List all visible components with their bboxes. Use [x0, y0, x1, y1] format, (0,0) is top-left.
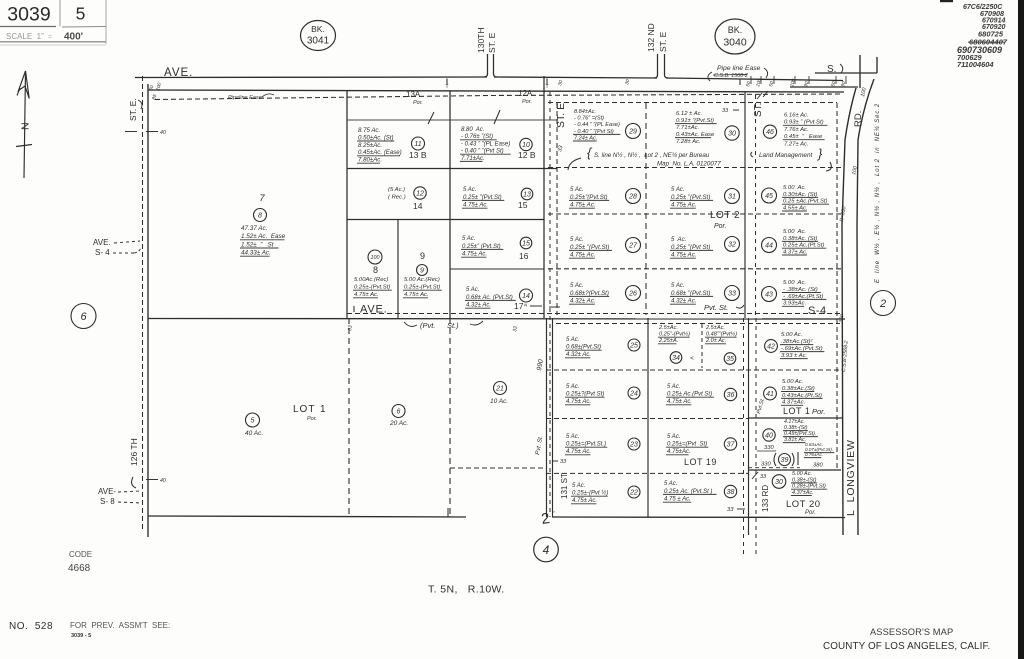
svg-text:5 Ac.: 5 Ac.	[566, 434, 579, 440]
svg-text:13: 13	[523, 192, 531, 199]
svg-text:32: 32	[728, 242, 736, 249]
svg-text:(5 Ac.): (5 Ac.)	[388, 187, 405, 193]
svg-text:130TH: 130TH	[476, 27, 486, 53]
svg-text:40 Ac.: 40 Ac.	[245, 430, 263, 437]
svg-text:4.32± Ac.: 4.32± Ac.	[671, 298, 696, 305]
svg-text:0.93± ” (Pvt St): 0.93± ” (Pvt St)	[784, 120, 824, 126]
svg-text:<: <	[690, 355, 694, 362]
north boundary line	[148, 90, 844, 92]
divider parcels 8 9	[397, 220, 399, 319]
svg-text:5: 5	[76, 4, 86, 24]
svg-text:5 Ac.: 5 Ac.	[566, 337, 579, 343]
parcel 37	[666, 434, 737, 455]
svg-text:5.00 Ac.: 5.00 Ac.	[792, 471, 812, 477]
svg-text:LOT: LOT	[293, 404, 315, 415]
svg-text:6.16± Ac.: 6.16± Ac.	[784, 113, 809, 119]
svg-text:330: 330	[764, 445, 774, 451]
svg-text:Por.: Por.	[413, 100, 423, 106]
tick 40 lower	[146, 478, 166, 484]
parcel 28	[569, 186, 641, 209]
east boundary dashed	[836, 103, 838, 470]
svg-text:0.25± ”(Pvt.St): 0.25± ”(Pvt.St)	[463, 195, 502, 201]
parcel 25	[565, 337, 640, 358]
svg-text:0.43±Ac. Ease: 0.43±Ac. Ease	[676, 132, 715, 138]
svg-text:33: 33	[727, 507, 734, 513]
svg-text:7.24± Ac.: 7.24± Ac.	[574, 135, 597, 141]
S street label	[827, 64, 843, 75]
svg-text:Por.: Por.	[307, 416, 317, 422]
svg-text:S-4: S-4	[808, 305, 827, 317]
svg-text:21: 21	[495, 386, 504, 393]
parcel 45	[762, 185, 830, 211]
svg-text:Por.: Por.	[522, 99, 532, 105]
ticks near 130th	[557, 78, 631, 86]
parcel 16	[461, 236, 532, 258]
west boundary solid	[147, 84, 149, 537]
svg-text:6: 6	[397, 409, 401, 416]
svg-text:7.71±Ac.: 7.71±Ac.	[461, 156, 485, 162]
svg-text:5 Ac.: 5 Ac.	[570, 236, 584, 243]
col divider AB lower	[647, 318, 649, 517]
lot 1 por label	[783, 406, 825, 416]
parcel 30	[675, 111, 739, 145]
svg-text:- 0.76” =(St): - 0.76” =(St)	[574, 116, 604, 122]
svg-text:5 Ac.: 5 Ac.	[570, 186, 584, 193]
parcel line x450	[449, 91, 451, 318]
svg-text:N: N	[20, 122, 32, 130]
parcel 36	[666, 384, 737, 405]
svg-text:4.75± Ac.: 4.75± Ac.	[463, 203, 488, 209]
svg-text:4.55± Ac.: 4.55± Ac.	[783, 205, 808, 211]
svg-text:400': 400'	[64, 32, 83, 43]
svg-text:5.00 Ac.: 5.00 Ac.	[783, 280, 806, 286]
svg-text:0.25±?(Pvt St): 0.25±?(Pvt St)	[566, 392, 604, 398]
right grid row1 bottom dashed	[548, 167, 843, 169]
svg-text:0.50±Ac. (St): 0.50±Ac. (St)	[358, 134, 394, 141]
svg-text:4.75± Ac.: 4.75± Ac.	[671, 252, 696, 259]
svg-text:0.25±=(Pvt St): 0.25±=(Pvt St)	[667, 442, 707, 448]
svg-text:8.84±Ac.: 8.84±Ac.	[574, 109, 596, 115]
lot 20 label	[786, 499, 821, 516]
svg-text:0.25±-(Pvt ½): 0.25±-(Pvt ½)	[572, 490, 608, 497]
land management note	[751, 146, 832, 171]
svg-text:42: 42	[767, 344, 775, 351]
133rd st east dashed upper	[755, 95, 757, 318]
parcel 15	[462, 187, 533, 209]
scale note	[6, 32, 83, 43]
row line y168 cols	[347, 168, 557, 170]
svg-text:5 Ac.: 5 Ac.	[463, 187, 476, 193]
parcel 46	[763, 113, 827, 148]
slash mark 2	[494, 110, 500, 124]
svg-text:6: 6	[80, 311, 87, 323]
line below por strip	[347, 119, 557, 121]
svg-text:330: 330	[761, 462, 771, 468]
svg-text:40: 40	[160, 130, 166, 136]
svg-text:(Pvt.: (Pvt.	[420, 321, 435, 330]
parcel 13B	[357, 127, 425, 164]
svg-text:12: 12	[416, 191, 424, 198]
svg-text:0.25± Ac.(Pt.St): 0.25± Ac.(Pt.St)	[783, 243, 824, 249]
avenue label middle	[354, 304, 387, 316]
parcel line x544 132nd st west	[543, 76, 545, 318]
svg-text:9: 9	[420, 268, 424, 275]
pvt st label middle	[404, 321, 483, 330]
svg-text:4.75± Ac.: 4.75± Ac.	[566, 399, 591, 405]
svg-text:T. 5N, R.10W.: T. 5N, R.10W.	[428, 584, 505, 596]
ave s8 label	[98, 487, 142, 506]
svg-text:NO. 528: NO. 528	[9, 621, 53, 632]
svg-text:4.75± Ac.: 4.75± Ac.	[570, 202, 595, 209]
parcel 33	[670, 282, 740, 305]
ave south dashed	[556, 323, 840, 325]
svg-text:4.75± Ac.: 4.75± Ac.	[566, 449, 591, 455]
svg-text:36: 36	[727, 392, 735, 399]
tick 17m	[549, 306, 560, 308]
svg-text:S. line N½ , N½ , Lot 2 , NE¼: S. line N½ , N½ , Lot 2 , NE¼ per Bureau	[594, 152, 710, 159]
svg-text:40: 40	[765, 433, 773, 440]
longview west edge	[842, 88, 856, 535]
130th st stub	[484, 54, 497, 77]
svg-text:0.25±” (Pvt.St): 0.25±” (Pvt.St)	[462, 244, 501, 250]
svg-text:5 Ac.: 5 Ac.	[664, 481, 677, 487]
svg-text:T: T	[545, 84, 548, 90]
svg-text:15: 15	[522, 241, 530, 248]
svg-text:0.28±-(Pvt.St): 0.28±-(Pvt.St)	[792, 484, 826, 490]
parcel 14 circle	[414, 187, 426, 199]
west street label ST E	[128, 98, 142, 121]
svg-text:ST.: ST.	[753, 103, 764, 117]
svg-text:5.00Ac.(Rec): 5.00Ac.(Rec)	[354, 277, 388, 283]
parcel 38	[663, 481, 737, 503]
svg-text:- 0.76± ”(St): - 0.76± ”(St)	[461, 134, 493, 140]
avenue J line top	[135, 77, 843, 81]
tick 33 row1 colB	[722, 108, 739, 114]
svg-text:- 0.40 ” ”(Pvt St): - 0.40 ” ”(Pvt St)	[461, 149, 504, 155]
row line y417 solid-right	[748, 417, 843, 419]
svg-text:29: 29	[628, 129, 637, 136]
svg-text:4.75± Ac.: 4.75± Ac.	[404, 292, 429, 298]
circle 6 west	[71, 304, 96, 329]
svg-text:0.91± ”(Pvt.St): 0.91± ”(Pvt.St)	[676, 118, 714, 124]
svg-text:30: 30	[728, 131, 736, 138]
svg-text:34: 34	[672, 355, 680, 362]
dim 330 upper	[757, 445, 776, 451]
avenue S north side	[815, 72, 877, 74]
slash mark 1	[428, 112, 434, 124]
svg-text:5.00 Ac.: 5.00 Ac.	[781, 332, 802, 338]
svg-text:11: 11	[414, 141, 421, 148]
right grid west dashed	[556, 103, 558, 315]
svg-text:0.38±-(St): 0.38±-(St)	[792, 477, 817, 483]
svg-text:1.52± Ac. Ease: 1.52± Ac. Ease	[241, 233, 286, 240]
pvt st label row4	[704, 303, 744, 312]
parcel 9	[403, 277, 442, 298]
pipe line ease note	[708, 65, 768, 81]
svg-text:0.25±-(Pvt.St): 0.25±-(Pvt.St)	[354, 285, 390, 291]
svg-text:0.25± ”(Pvt.St): 0.25± ”(Pvt.St)	[671, 194, 710, 201]
svg-text:2.5±Ac.: 2.5±Ac.	[658, 325, 678, 331]
parcel 30 lot20	[772, 471, 827, 496]
parcel 17 label	[514, 301, 542, 311]
svg-text:5 Ac.: 5 Ac.	[667, 384, 680, 390]
svg-text:0.25± ”(Pvt St): 0.25± ”(Pvt St)	[671, 244, 710, 251]
svg-text:0.48””(Pvt½): 0.48””(Pvt½)	[706, 331, 737, 338]
svg-text:0.30±Ac. (St): 0.30±Ac. (St)	[783, 192, 817, 198]
svg-text:25: 25	[629, 343, 638, 350]
svg-text:380: 380	[813, 463, 823, 469]
svg-text:8.80 Ac.: 8.80 Ac.	[461, 127, 484, 133]
parcel 7 circle	[254, 209, 267, 222]
svg-text:S- 4: S- 4	[95, 248, 110, 257]
svg-text:- 0.40 ” ”(Pvt St): - 0.40 ” ”(Pvt St)	[574, 129, 614, 135]
svg-text:7.71±Ac.: 7.71±Ac.	[676, 125, 699, 131]
svg-text:44.33± Ac.: 44.33± Ac.	[241, 250, 271, 257]
svg-text:4.75± Ac.: 4.75± Ac.	[462, 252, 487, 258]
parcel 27	[569, 236, 641, 259]
avenue S south side	[790, 86, 858, 88]
svg-text:7.76± Ac.: 7.76± Ac.	[784, 127, 809, 133]
svg-text:17: 17	[514, 301, 524, 311]
west boundary dashed	[142, 76, 144, 531]
svg-text:5: 5	[251, 418, 255, 425]
svg-text:5 Ac.: 5 Ac.	[572, 483, 585, 489]
parcel 31	[670, 186, 740, 209]
svg-text:5 Ac.: 5 Ac.	[566, 384, 579, 390]
row line y473 dashed	[546, 472, 748, 474]
parcel 39 small	[804, 442, 834, 458]
svg-text:37: 37	[727, 442, 736, 449]
svg-text:Pvt. St.: Pvt. St.	[704, 303, 728, 312]
svg-text:24: 24	[629, 391, 638, 398]
svg-text:CODE: CODE	[69, 550, 92, 559]
tick marks on avenue	[445, 79, 740, 91]
svg-text:4.75 ± Ac.: 4.75 ± Ac.	[664, 497, 691, 503]
book circle BK 3041	[301, 21, 336, 51]
parcel 22	[571, 483, 640, 504]
parcel 26	[569, 282, 641, 305]
svg-text:3041: 3041	[307, 36, 330, 47]
133rd st west line upper	[744, 92, 746, 318]
svg-text:4.32± Ac.: 4.32± Ac.	[570, 298, 595, 305]
svg-text:131 ST: 131 ST	[560, 473, 569, 499]
svg-text:Pipe line Ease: Pipe line Ease	[717, 65, 761, 72]
132nd st stub	[654, 54, 668, 78]
svg-text:8: 8	[258, 213, 262, 220]
svg-text:T: T	[445, 84, 448, 90]
svg-text:8.25±Ac.: 8.25±Ac.	[358, 142, 382, 149]
row line y219	[347, 219, 544, 221]
parcel 39 circle	[779, 454, 791, 466]
svg-text:0.25± Ac. (Pvt.St ): 0.25± Ac. (Pvt.St )	[664, 489, 712, 495]
corner ticks left	[148, 82, 163, 101]
svg-text:126 TH: 126 TH	[129, 438, 139, 466]
133rd st solid lower	[748, 318, 750, 535]
svg-text:3.93 ± Ac.: 3.93 ± Ac.	[781, 353, 807, 359]
svg-text:0.68±?(Pvt.St): 0.68±?(Pvt.St)	[570, 290, 609, 297]
svg-text:4.75± Ac.: 4.75± Ac.	[572, 498, 597, 504]
svg-text:16: 16	[519, 251, 529, 261]
svg-text:3039: 3039	[7, 4, 50, 26]
right grid row3 bottom dashed	[548, 268, 843, 270]
svg-text:33: 33	[560, 459, 567, 465]
svg-text:133 RD: 133 RD	[761, 485, 770, 512]
svg-text:9: 9	[420, 251, 425, 261]
svg-text:BK.: BK.	[311, 24, 325, 34]
tick 33 133rd	[752, 472, 767, 480]
svg-text:=: =	[48, 34, 52, 41]
svg-text:3.81± Ac.: 3.81± Ac.	[784, 437, 806, 443]
svg-text:2.25±A.: 2.25±A.	[658, 338, 678, 344]
lot 1 label bottom	[293, 404, 326, 422]
svg-text:39: 39	[781, 457, 789, 464]
svg-text:C.S.B. 1568-2: C.S.B. 1568-2	[714, 73, 748, 79]
svg-text:ASSESSOR'S MAP: ASSESSOR'S MAP	[870, 627, 953, 637]
avenue middle solid	[148, 318, 845, 321]
svg-text:- .69±Ac.(Pt.St): - .69±Ac.(Pt.St)	[783, 294, 823, 300]
svg-text:0.68± ”(Pvt.St): 0.68± ”(Pvt.St)	[671, 290, 710, 297]
svg-text:0.45±Ac. (Ease): 0.45±Ac. (Ease)	[358, 149, 402, 156]
133rd st dashed lower b	[755, 318, 757, 555]
svg-text:5 Ac.: 5 Ac.	[466, 287, 479, 293]
svg-text:3039 - 5: 3039 - 5	[71, 633, 91, 639]
svg-text:31: 31	[728, 194, 736, 201]
svg-text:2.5±Ac.: 2.5±Ac.	[705, 325, 725, 331]
prev assmt label	[70, 621, 170, 639]
svg-text:ST. E: ST. E	[658, 31, 668, 52]
svg-text:ST. E: ST. E	[487, 32, 497, 53]
recording document numbers	[957, 4, 1008, 69]
svg-text:4668: 4668	[68, 563, 91, 574]
svg-text:0.68±(Pvt.St): 0.68±(Pvt.St)	[566, 345, 601, 351]
svg-text:Pipeline Ease: Pipeline Ease	[228, 95, 262, 101]
svg-text:7.28± Ac.: 7.28± Ac.	[676, 139, 701, 145]
top edge artifact	[940, 0, 953, 2]
svg-text:2.0± Ac.: 2.0± Ac.	[705, 338, 726, 344]
svg-text:4.37±Ac.: 4.37±Ac.	[782, 400, 805, 406]
svg-text:7.80±Ac.: 7.80±Ac.	[358, 157, 382, 164]
lower west solid b	[552, 318, 554, 517]
svg-text:S- 8: S- 8	[100, 497, 115, 506]
parcel 21 circle	[494, 382, 507, 395]
svg-text:5.00 Ac.: 5.00 Ac.	[783, 229, 806, 235]
svg-text:1.52± ” St: 1.52± ” St	[241, 241, 274, 248]
west street label 126th	[129, 438, 139, 488]
130th street label	[476, 27, 497, 53]
svg-text:23: 23	[629, 442, 638, 449]
svg-text:- .38±Ac. (St): - .38±Ac. (St)	[783, 287, 818, 293]
svg-text:33: 33	[728, 291, 736, 298]
svg-text:26: 26	[628, 291, 637, 298]
right grid top dashed	[548, 102, 837, 104]
svg-text:12A: 12A	[518, 89, 533, 98]
svg-text:Land Management: Land Management	[759, 152, 813, 159]
parcel 23	[565, 434, 640, 455]
lot1 divider dashed b	[449, 318, 451, 516]
dim 330 lower	[761, 462, 771, 468]
12A label	[518, 89, 533, 105]
svg-text:711004604: 711004604	[957, 60, 993, 69]
svg-text:AVE-: AVE-	[98, 487, 116, 496]
svg-text:4.32± Ac.: 4.32± Ac.	[566, 352, 591, 358]
svg-text:BK.: BK.	[728, 25, 743, 35]
svg-text:41: 41	[766, 391, 774, 398]
svg-text:44: 44	[765, 243, 773, 250]
svg-text:4.75±Ac.: 4.75±Ac.	[667, 449, 691, 455]
svg-text:7: 7	[259, 193, 265, 204]
parcel 32	[670, 236, 740, 259]
parcel 14 note	[388, 187, 406, 201]
svg-text:4.75± Ac.: 4.75± Ac.	[570, 252, 595, 259]
svg-text:5 Ac.: 5 Ac.	[570, 282, 584, 289]
lower west solid a	[546, 318, 548, 517]
svg-text:20 Ac.: 20 Ac.	[389, 420, 408, 427]
svg-text:5 Ac.: 5 Ac.	[671, 236, 686, 243]
parcel 5 circle	[246, 413, 260, 427]
svg-text:100: 100	[371, 255, 380, 261]
svg-text:43: 43	[765, 292, 773, 299]
parcel 12B	[460, 127, 532, 162]
svg-text:4.37±Ac.: 4.37±Ac.	[792, 490, 814, 496]
svg-text:3.93±Ac.: 3.93±Ac.	[783, 301, 806, 307]
svg-text:4.75± Ac.: 4.75± Ac.	[671, 202, 696, 209]
svg-text:5.00 Ac.: 5.00 Ac.	[782, 379, 803, 385]
svg-text:.38±Ac.(St)²: .38±Ac.(St)²	[781, 339, 813, 345]
svg-text:( Rec.): ( Rec.)	[388, 195, 406, 201]
svg-text:5.00 Ac.(Rec): 5.00 Ac.(Rec)	[404, 277, 440, 283]
svg-text:3040: 3040	[723, 37, 747, 49]
parcel 41	[764, 379, 823, 406]
svg-text:1: 1	[320, 404, 326, 415]
longview north leg	[860, 55, 877, 88]
svg-text:7.27± Ac.: 7.27± Ac.	[784, 141, 809, 147]
parcel 9 circle	[417, 265, 428, 276]
svg-text:33: 33	[722, 108, 729, 114]
parcel 6 circle	[392, 405, 405, 418]
svg-text:L LONGVIEW: L LONGVIEW	[845, 439, 857, 516]
svg-text:4: 4	[543, 543, 550, 557]
parcel line x347	[346, 91, 348, 319]
tick 40 upper	[125, 130, 166, 136]
bottom boundary west	[148, 516, 466, 517]
parcel 34	[658, 325, 690, 363]
svg-text:27: 27	[628, 243, 638, 250]
parcel 35	[705, 325, 737, 364]
svg-text:13A: 13A	[406, 90, 421, 99]
north arrow	[16, 71, 32, 178]
bottom boundary east	[552, 516, 845, 519]
right grid row2 bottom dashed	[548, 213, 843, 215]
132nd st dashed center	[549, 92, 551, 517]
svg-text:St.): St.)	[447, 321, 459, 330]
parcel 21 bottom dashed	[450, 467, 546, 469]
svg-text:- 0.43 ” ”(PL Ease): - 0.43 ” ”(PL Ease)	[461, 141, 510, 147]
parcel 40	[763, 419, 818, 443]
svg-text:- 0.44 ” ”(PL Ease): - 0.44 ” ”(PL Ease)	[574, 122, 620, 128]
parcel 24	[565, 384, 640, 405]
svg-text:COUNTY OF LOS ANGELES, CALIF.: COUNTY OF LOS ANGELES, CALIF.	[823, 641, 990, 652]
parcel 42	[765, 332, 825, 359]
row line 12A y269	[450, 268, 544, 270]
title block border	[0, 0, 106, 45]
svg-text:5 Ac.: 5 Ac.	[671, 186, 685, 193]
svg-text:40: 40	[160, 478, 166, 484]
longview east edge	[857, 79, 874, 535]
svg-text:LOT 2: LOT 2	[710, 210, 740, 221]
svg-text:5 Ac.: 5 Ac.	[462, 236, 475, 242]
svg-text:E line W½ , E½ , N½ , N½ ,: E line W½ , E½ , N½ , N½ , Lot 2 in NE¼ …	[874, 103, 881, 283]
svg-text:46: 46	[766, 129, 774, 136]
